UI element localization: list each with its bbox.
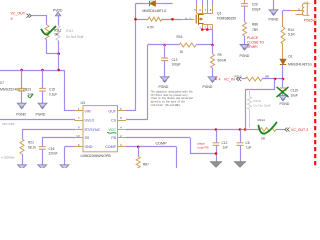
resistor R112 0R xyxy=(45,25,49,40)
wire source down to R9 xyxy=(212,30,214,46)
wire COMP xyxy=(126,146,177,148)
wire D1 to node xyxy=(282,65,284,80)
capacitor C6 1uF xyxy=(237,143,244,146)
inductor winding xyxy=(302,3,304,15)
resistor R110 0R xyxy=(246,77,263,81)
junction xyxy=(134,18,137,21)
svg-text:R9: R9 xyxy=(218,53,222,57)
wire down to VIN bus xyxy=(58,54,60,70)
wire VC_IN xyxy=(242,78,246,80)
junction xyxy=(20,69,23,72)
wire COMP down xyxy=(176,147,178,168)
wire CS vertical xyxy=(147,45,149,120)
drain bar xyxy=(197,13,213,15)
wire R9 to ground xyxy=(212,68,214,77)
wire VC_OUT horizontal xyxy=(32,15,48,17)
wire diode branch top xyxy=(136,3,173,5)
svg-text:68.1k: 68.1k xyxy=(28,145,36,149)
wire C21 to ground xyxy=(21,91,23,103)
wire down to R21 xyxy=(22,130,24,140)
svg-text:10uF: 10uF xyxy=(291,94,298,98)
junction FB C12 xyxy=(215,152,218,155)
wire PVDD to R111 xyxy=(58,16,60,26)
wire join xyxy=(47,53,59,55)
wire down to C16 xyxy=(42,138,44,146)
wire to R114 xyxy=(245,129,260,131)
capacitor C115 10uF xyxy=(280,88,287,91)
wire R110 to node xyxy=(262,78,283,80)
wire SS xyxy=(42,137,75,139)
junction xyxy=(57,53,60,56)
svg-text:PGND: PGND xyxy=(240,54,250,58)
svg-text:PGND: PGND xyxy=(159,85,169,89)
wire down xyxy=(274,79,276,89)
green check annotation C21 xyxy=(28,94,33,98)
svg-text:FDMS86250: FDMS86250 xyxy=(217,17,236,21)
wire C29 to R88 xyxy=(244,6,246,22)
wire CS top xyxy=(148,44,165,46)
svg-text:directly to the pins of the: directly to the pins of the xyxy=(151,100,186,104)
wire snubber left vertical xyxy=(135,4,137,20)
svg-text:CS filter must be placed very: CS filter must be placed very xyxy=(151,93,189,97)
svg-text:0.1uF: 0.1uF xyxy=(49,92,57,96)
svg-text:C115: C115 xyxy=(291,89,299,93)
svg-text:The capacitor associated with: The capacitor associated with the xyxy=(151,89,194,93)
off-page connector VC_IN xyxy=(215,78,217,81)
pin RT/SYNC stub xyxy=(75,129,84,131)
junction xyxy=(57,69,60,72)
svg-text:D5: D5 xyxy=(150,0,154,3)
resistor R14 5.1R xyxy=(281,27,285,44)
svg-text:4.R: 4.R xyxy=(304,0,308,4)
svg-text:MMSD4148T1G: MMSD4148T1G xyxy=(143,9,167,13)
wire bus down to VIN xyxy=(64,70,66,111)
svg-text:R88: R88 xyxy=(252,22,258,26)
wire R112 bottom xyxy=(46,40,48,54)
svg-text:close to the device and connec: close to the device and connected xyxy=(151,96,194,100)
svg-text:34V OFF: 34V OFF xyxy=(2,122,15,126)
wire to C21 xyxy=(21,70,23,88)
svg-text:CS: CS xyxy=(111,118,117,122)
pin SS stub xyxy=(75,137,84,139)
green annotation under VCC xyxy=(108,132,117,135)
capacitor C12 1uF xyxy=(213,143,220,146)
svg-text:Do Not Stuff: Do Not Stuff xyxy=(254,103,271,107)
svg-text:5.1R: 5.1R xyxy=(288,32,295,36)
wire C15 to ground xyxy=(42,91,44,103)
svg-text:XFMR!: XFMR! xyxy=(247,45,258,49)
wire down to R112 xyxy=(46,16,48,25)
wire R88 to ground xyxy=(244,36,246,45)
ground PGND top right xyxy=(269,10,278,15)
pin VIN stub xyxy=(75,110,84,112)
junction xyxy=(244,128,247,131)
svg-text:GND: GND xyxy=(85,145,93,149)
svg-text:R111: R111 xyxy=(66,29,73,33)
svg-text:R16: R16 xyxy=(177,35,183,39)
svg-text:SS: SS xyxy=(85,136,90,140)
wire resistor branch xyxy=(136,19,149,21)
ground U3 GND xyxy=(60,165,69,170)
junction xyxy=(239,128,242,131)
svg-text:4,: 4, xyxy=(185,16,188,20)
svg-text:C6: C6 xyxy=(246,141,250,145)
resistor R88 75R xyxy=(243,22,247,36)
wire GND down xyxy=(64,147,66,165)
wire R16 to node xyxy=(196,44,213,46)
svg-text:= 250KHz: = 250KHz xyxy=(1,155,15,159)
wire C115 to ground xyxy=(282,91,284,96)
wire OUT xyxy=(126,110,136,112)
wire to R16 xyxy=(165,44,179,46)
svg-text:D1: D1 xyxy=(289,54,293,58)
svg-text:VIN: VIN xyxy=(85,109,91,113)
off-page connector VC_OUT xyxy=(285,128,290,132)
wire to gate xyxy=(162,19,181,21)
svg-text:Q1: Q1 xyxy=(217,11,222,15)
svg-text:R87: R87 xyxy=(143,162,149,166)
svg-text:50mR: 50mR xyxy=(218,58,227,62)
ground R21 xyxy=(18,165,27,170)
ground PGND C21 xyxy=(17,103,26,108)
ground PGND R88 xyxy=(240,45,249,50)
svg-text:C15: C15 xyxy=(49,88,55,92)
wire OUT vertical xyxy=(135,19,137,111)
ground C6 xyxy=(234,162,246,168)
wire UVLO from left edge xyxy=(0,119,75,121)
ground PGND C13 xyxy=(160,77,169,82)
wire R114 out xyxy=(276,129,285,131)
resistor R114 0R xyxy=(260,128,276,132)
resistor R16 1K xyxy=(179,43,196,47)
wire R21 to ground xyxy=(22,154,24,165)
svg-text:10: 10 xyxy=(76,134,80,138)
junction xyxy=(206,28,209,31)
wire down to VCC net xyxy=(245,89,247,129)
svg-text:R21: R21 xyxy=(28,141,34,145)
wire to C29 xyxy=(244,0,246,3)
wire R111 bottom xyxy=(58,41,60,54)
wire C16 to ground xyxy=(42,150,44,165)
junction xyxy=(41,69,44,72)
svg-text:VC_IN: VC_IN xyxy=(224,77,235,81)
svg-text:PGND: PGND xyxy=(36,112,46,116)
capacitor C16 220nF xyxy=(39,147,46,150)
svg-text:75R: 75R xyxy=(252,28,259,32)
wire to C15 xyxy=(42,70,44,88)
svg-text:VCC: VCC xyxy=(108,128,116,132)
svg-text:PGND: PGND xyxy=(16,112,26,116)
pin CS stub xyxy=(118,120,127,122)
junction xyxy=(282,78,285,81)
svg-text:PGND: PGND xyxy=(269,17,279,21)
svg-text:R113: R113 xyxy=(254,99,261,103)
green check annotation over R114 xyxy=(259,123,277,134)
power PVDD symbol xyxy=(55,12,60,16)
svg-text:C16: C16 xyxy=(49,147,55,151)
svg-text:R114: R114 xyxy=(258,118,265,122)
svg-text:R14: R14 xyxy=(288,28,294,32)
capacitor C13 100pF xyxy=(161,58,168,61)
svg-text:100pF: 100pF xyxy=(252,8,261,12)
pin VCC stub xyxy=(118,129,127,131)
svg-text:C21: C21 xyxy=(26,88,32,92)
wire to R9 xyxy=(212,45,214,54)
op-amp U3 LM5022MM/NOPB controller box xyxy=(83,106,118,152)
source join wire xyxy=(202,29,212,31)
wire RT/SYNC xyxy=(22,129,75,131)
pin UVLO stub xyxy=(75,120,84,122)
ground PGND C115 xyxy=(279,95,288,100)
wire C6 to ground xyxy=(240,146,242,162)
diode D1 MMSD4148T1G xyxy=(280,59,286,65)
wire to R87 xyxy=(138,147,140,157)
wire to R14 xyxy=(282,17,284,27)
svg-text:1uF: 1uF xyxy=(223,146,229,150)
wire to C13 xyxy=(164,45,166,58)
ground C12 xyxy=(210,162,222,168)
wire CS xyxy=(126,119,148,121)
svg-text:4.7R: 4.7R xyxy=(147,25,154,29)
svg-text:4: 4 xyxy=(219,77,221,81)
junction xyxy=(171,18,174,21)
svg-text:1uF: 1uF xyxy=(246,146,252,150)
diode D5 MMSD4148T1G (gate) xyxy=(142,3,150,5)
source bar top xyxy=(202,24,212,26)
resistor R87 xyxy=(136,157,140,171)
wire down from corner xyxy=(282,11,284,18)
svg-text:R110: R110 xyxy=(235,74,242,78)
resistor R9 50mR xyxy=(211,54,215,68)
svg-text:FB: FB xyxy=(111,136,116,140)
capacitor C21 1uF xyxy=(18,88,25,91)
svg-text:Do Not Stuff: Do Not Stuff xyxy=(66,35,83,39)
wire to C12 xyxy=(216,130,218,143)
page boundary dashed line xyxy=(314,0,316,168)
wire to PGND xyxy=(273,0,275,10)
wire to C115 xyxy=(282,79,284,88)
wire GND pin xyxy=(65,146,76,148)
junction xyxy=(163,44,166,47)
pin FB stub xyxy=(118,137,127,139)
inductor pin 4 lead xyxy=(296,14,304,16)
wire C12 to ground xyxy=(216,146,218,162)
wire R14 to D1 xyxy=(282,44,284,59)
junction xyxy=(137,146,140,149)
svg-text:C29: C29 xyxy=(252,3,258,7)
svg-text:UVLO: UVLO xyxy=(85,118,95,122)
svg-text:C13: C13 xyxy=(172,58,178,62)
wire FB xyxy=(126,137,190,139)
wire to VIN pin xyxy=(64,110,75,112)
resistor R21 68.1k xyxy=(20,139,24,154)
wire C13 to ground xyxy=(164,61,166,77)
svg-text:PGND: PGND xyxy=(280,102,290,106)
svg-text:MMSD4148T1G: MMSD4148T1G xyxy=(288,63,312,67)
wire VIN bus xyxy=(0,70,64,72)
resistor R111 DNS xyxy=(56,26,60,41)
green check annotation over R112 xyxy=(42,27,56,35)
wire FB down xyxy=(190,138,192,154)
svg-text:0R: 0R xyxy=(55,33,60,37)
svg-text:RT/SYNC: RT/SYNC xyxy=(85,128,101,132)
svg-text:LM5022MM/NOPB: LM5022MM/NOPB xyxy=(81,154,112,158)
capacitor C29 100pF xyxy=(241,4,248,7)
green X annotation over C115 xyxy=(277,87,288,96)
pin OUT stub xyxy=(118,110,127,112)
svg-text:U3: U3 xyxy=(81,101,85,105)
svg-text:near FB: near FB xyxy=(198,145,209,149)
junction xyxy=(274,78,277,81)
junction xyxy=(211,44,214,47)
resistor R113 Do Not Stuff xyxy=(249,89,251,96)
gate pin lead xyxy=(181,19,195,21)
capacitor C15 0.1uF xyxy=(39,88,46,91)
svg-text:PLACE: PLACE xyxy=(247,36,259,40)
svg-text:D7: D7 xyxy=(0,81,4,85)
svg-text:PGND: PGND xyxy=(203,85,213,89)
pin COMP stub xyxy=(118,146,127,148)
wire corner to inductor xyxy=(283,10,290,12)
junction xyxy=(201,28,204,31)
resistor 4.7R xyxy=(148,17,162,21)
pin GND stub xyxy=(75,146,84,148)
svg-text:220nF: 220nF xyxy=(49,152,58,156)
off-page connector xyxy=(237,77,242,81)
svg-text:controller (CS and GND).: controller (CS and GND). xyxy=(151,103,182,107)
off-page connector VC_OUT xyxy=(27,14,32,18)
svg-text:VC_OUT: VC_OUT xyxy=(11,12,26,16)
svg-text:COMP: COMP xyxy=(105,145,116,149)
wire to C6 xyxy=(240,130,242,143)
junction xyxy=(215,128,218,131)
svg-text:OUT: OUT xyxy=(108,109,116,113)
svg-text:9: 9 xyxy=(11,17,13,21)
ground PGND R9 xyxy=(208,77,217,82)
ground PGND C15 xyxy=(38,103,47,108)
wire FB to C12 xyxy=(190,153,216,155)
wire VCC rail xyxy=(126,129,245,131)
wire left xyxy=(245,89,275,91)
ground C16 xyxy=(38,165,47,170)
svg-text:CLOSE TO: CLOSE TO xyxy=(247,41,264,45)
svg-text:C12: C12 xyxy=(222,141,228,145)
svg-text:VC_OUT 3: VC_OUT 3 xyxy=(291,128,308,132)
svg-text:100pF: 100pF xyxy=(172,63,181,67)
svg-text:COMP: COMP xyxy=(156,141,168,145)
inductor pin 5 lead xyxy=(290,10,304,12)
